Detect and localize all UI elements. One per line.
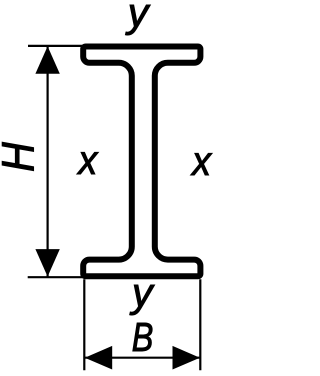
svg-text:x: x	[190, 139, 212, 185]
B dimension line	[85, 357, 200, 359]
B extension line left	[83, 279, 85, 370]
svg-text:x: x	[76, 137, 98, 183]
H arrow down	[35, 249, 59, 277]
B arrow right	[173, 346, 200, 370]
I-beam cross-section outline	[83, 47, 200, 277]
svg-text:y: y	[125, 0, 151, 35]
svg-text:H: H	[0, 141, 44, 171]
svg-text:B: B	[132, 314, 154, 359]
H arrow up	[35, 46, 59, 74]
B arrow left	[85, 346, 112, 370]
svg-text:y: y	[129, 269, 155, 315]
B extension line right	[199, 279, 201, 370]
extension line bottom (H)	[28, 276, 86, 278]
H dimension line	[46, 46, 48, 276]
extension line top (H)	[28, 45, 86, 47]
